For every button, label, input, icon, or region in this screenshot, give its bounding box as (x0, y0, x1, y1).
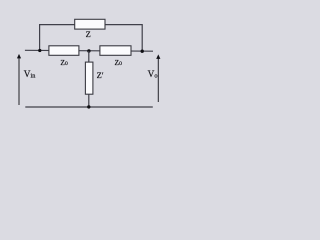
node B (center junction dot) (87, 49, 90, 52)
wire: middle row (25, 49, 153, 52)
Vin arrow (18, 58, 20, 106)
Vo arrow (157, 58, 159, 102)
wire: bottom rail (25, 106, 153, 108)
wire: shunt from center node down to Z' (88, 51, 90, 62)
wire: Z' to bottom rail (88, 94, 90, 107)
wire: top bridge (left vertical, top horizontal, right vertical) (40, 25, 143, 51)
node C (right junction dot) (141, 50, 144, 53)
resistor Z0 right box (100, 46, 131, 56)
resistor Z' (vertical box) (85, 62, 93, 94)
resistor Z (bridge box) (75, 19, 105, 29)
svg-text:Z′: Z′ (97, 70, 104, 80)
node A (left junction dot) (38, 49, 41, 52)
resistor Z0 left box (49, 46, 79, 56)
svg-text:Z: Z (86, 29, 91, 39)
node D (bottom junction dot) (87, 105, 90, 108)
